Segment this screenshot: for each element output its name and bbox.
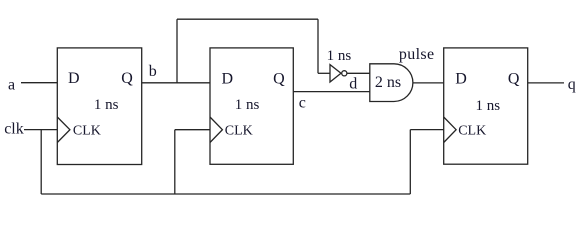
flip-flop FF1 clock triangle [57, 117, 70, 143]
wire b from FF1 Q to FF2 D [142, 82, 210, 84]
flip-flop FF2 clock triangle [210, 117, 222, 143]
inverter U1 bubble [342, 71, 347, 76]
wire feedback riser at node b [176, 19, 178, 83]
wire a input [21, 82, 57, 84]
wire clk riser to FF2 [174, 130, 176, 194]
wire clk bottom rail [41, 193, 410, 195]
wire d from bubble to AND input [347, 72, 370, 74]
wire feedback top run [177, 18, 318, 20]
svg-text:Q: Q [508, 71, 520, 88]
svg-text:D: D [222, 70, 234, 87]
wire inverter input stub [318, 72, 330, 74]
svg-text:1 ns: 1 ns [235, 97, 260, 113]
wire clk stub to FF3 [410, 129, 443, 131]
svg-text:1 ns: 1 ns [476, 98, 501, 114]
wire clk stub to FF2 [175, 129, 210, 131]
flip-flop FF3 clock triangle [444, 117, 456, 143]
svg-text:Q: Q [273, 71, 285, 88]
svg-text:1 ns: 1 ns [327, 48, 352, 64]
svg-text:1 ns: 1 ns [94, 97, 119, 113]
svg-text:2 ns: 2 ns [375, 74, 401, 91]
flip-flop FF1 box [57, 48, 141, 165]
svg-text:CLK: CLK [225, 123, 253, 138]
wire clk drop at junction [40, 130, 42, 194]
svg-text:Q: Q [121, 70, 133, 87]
svg-text:pulse: pulse [399, 46, 435, 63]
svg-text:clk: clk [4, 121, 24, 138]
svg-text:q: q [568, 76, 576, 93]
svg-text:D: D [455, 70, 467, 87]
wire c from FF2 Q to AND input [293, 91, 370, 93]
svg-text:a: a [8, 76, 15, 93]
svg-text:d: d [349, 76, 357, 93]
wire clk riser to FF3 [409, 130, 411, 194]
wire q output [528, 82, 564, 84]
svg-text:CLK: CLK [458, 123, 486, 138]
AND gate U2 body [370, 64, 413, 102]
svg-text:CLK: CLK [73, 123, 101, 138]
inverter U1 triangle [330, 65, 341, 82]
wire feedback drop to inverter [317, 19, 319, 73]
wire clk input [24, 129, 57, 131]
svg-text:D: D [68, 70, 80, 87]
flip-flop FF2 box [210, 48, 293, 164]
svg-text:b: b [149, 63, 157, 80]
flip-flop FF3 box [444, 48, 528, 164]
wire pulse from AND output to FF3 D [413, 82, 444, 84]
svg-text:c: c [299, 94, 306, 111]
